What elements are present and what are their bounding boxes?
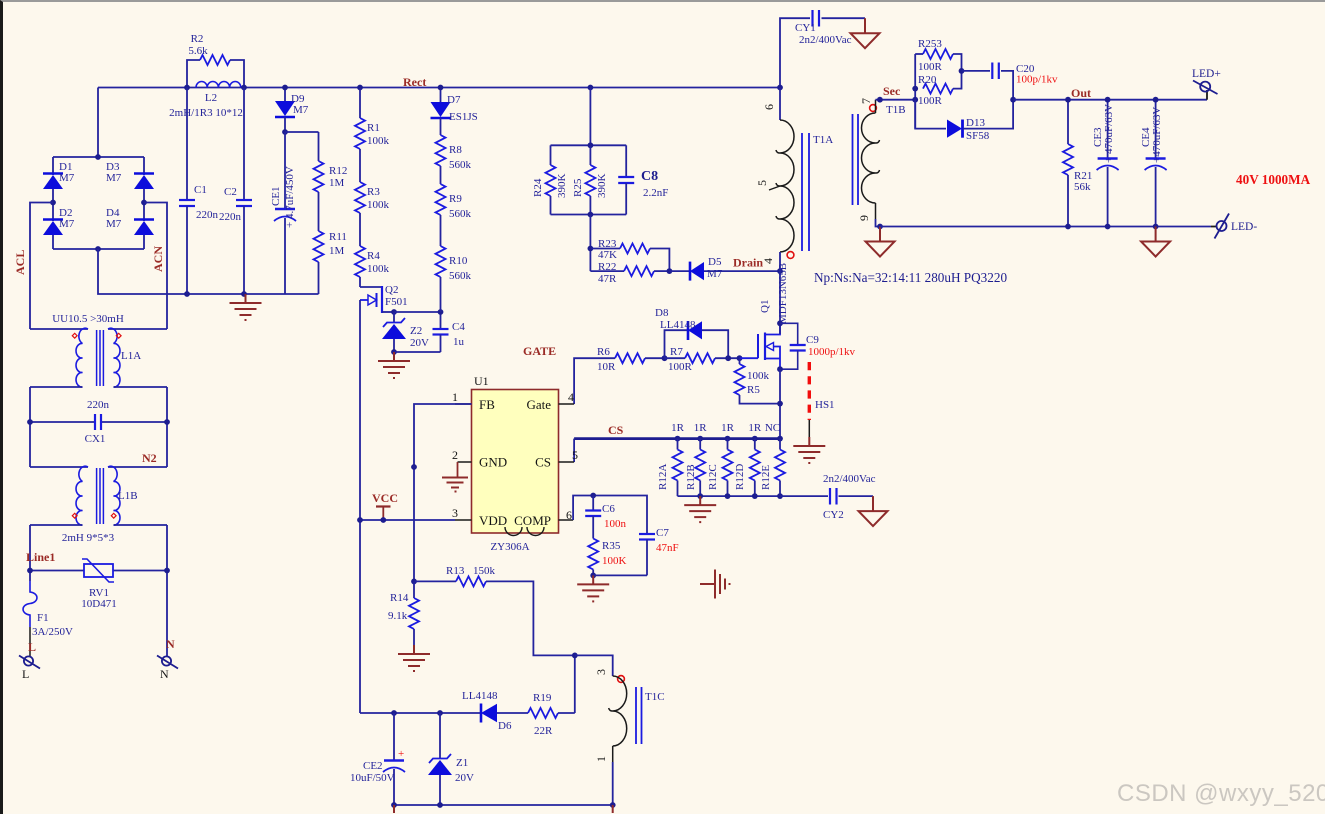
connector LED+ (1192, 68, 1221, 100)
node: pin 7 (877, 97, 883, 103)
svg-text:560k: 560k (449, 208, 472, 220)
wire: ACN from bridge to choke (144, 203, 167, 330)
ground: sense network (684, 496, 716, 522)
diode D9 (275, 88, 309, 133)
svg-text:1: 1 (452, 390, 458, 404)
earth: CY1 (851, 18, 880, 48)
svg-text:M7: M7 (707, 268, 723, 280)
wire: snubber bottom rail (551, 214, 627, 216)
svg-text:N2: N2 (142, 451, 157, 465)
svg-text:F501: F501 (385, 296, 408, 308)
svg-text:D6: D6 (498, 720, 512, 732)
node: drain / C9 (777, 320, 783, 326)
ground: COMP filter (577, 575, 609, 601)
svg-text:47nF: 47nF (656, 542, 679, 554)
node: source / C9 (777, 366, 783, 372)
resistor R19 (528, 692, 575, 737)
svg-text:R12: R12 (329, 165, 347, 177)
svg-text:6: 6 (566, 508, 572, 522)
svg-text:D5: D5 (708, 256, 722, 268)
svg-text:CE2: CE2 (363, 760, 383, 772)
svg-text:CSDN @wxyy_520: CSDN @wxyy_520 (1117, 780, 1325, 807)
node: Z1 bottom (437, 802, 443, 808)
svg-text:R7: R7 (670, 346, 683, 358)
svg-text:Q1: Q1 (759, 300, 771, 313)
wire: snubber to R23/R22 (589, 215, 591, 272)
node: CX1 right (164, 419, 170, 425)
svg-text:M7: M7 (59, 218, 75, 230)
svg-text:N: N (166, 637, 175, 651)
wire: CS sense rail (thick) (574, 437, 780, 440)
node: R35 bottom (590, 573, 596, 579)
pin 5 lead (559, 448, 579, 462)
diode D13 (915, 100, 1013, 142)
wire: sense bottom rail (678, 495, 781, 497)
svg-text:R35: R35 (602, 540, 621, 552)
wire: to Q1 gate (740, 357, 759, 359)
svg-text:Np:Ns:Na=32:14:11 280uH PQ3220: Np:Ns:Na=32:14:11 280uH PQ3220 (814, 270, 1007, 285)
power stub: aux return left (393, 805, 395, 813)
wire: bridge bottom rail (53, 248, 144, 250)
resistor R12 (314, 132, 348, 192)
svg-text:C4: C4 (452, 321, 465, 333)
node: VCC symbol tap (380, 517, 386, 523)
svg-text:4: 4 (568, 390, 574, 404)
pin 1 lead (452, 390, 472, 404)
svg-text:VCC: VCC (372, 491, 398, 505)
resistor R6 (597, 346, 665, 373)
svg-text:ES1JS: ES1JS (449, 111, 478, 123)
wire: L1B left down to Line1 (29, 525, 31, 581)
svg-text:D13: D13 (966, 117, 985, 129)
capacitor CE2 (electrolytic) (350, 713, 405, 805)
svg-text:1: 1 (594, 756, 608, 762)
svg-text:CE1: CE1 (270, 186, 282, 206)
resistor R12E (760, 439, 785, 497)
connector LED- (1211, 214, 1257, 239)
svg-text:+ 470uF/63V: + 470uF/63V (1103, 104, 1115, 163)
svg-text:GATE: GATE (523, 344, 556, 358)
svg-text:R9: R9 (449, 193, 462, 205)
pin 3 lead (452, 506, 472, 520)
svg-text:HS1: HS1 (815, 399, 835, 411)
node: CE3 top (1105, 97, 1111, 103)
svg-text:N: N (160, 667, 169, 681)
wire: Z2 bottom to C4 bottom (394, 351, 441, 353)
wire: snubber top vertical (589, 88, 591, 146)
node: snubber top (588, 142, 594, 148)
svg-text:R14: R14 (390, 592, 409, 604)
wire: bridge minus down to ground rail (98, 249, 319, 294)
svg-text:220n: 220n (219, 211, 242, 223)
wire: bridge top rail (53, 156, 144, 158)
svg-text:C7: C7 (656, 527, 669, 539)
svg-text:6: 6 (762, 104, 776, 110)
svg-text:3: 3 (452, 506, 458, 520)
node: CE4 top (1153, 97, 1159, 103)
node: bus corner at transformer (777, 85, 783, 91)
svg-text:3A/250V: 3A/250V (32, 626, 73, 638)
heatsink HS1 (809, 362, 834, 437)
svg-text:R4: R4 (367, 250, 380, 262)
wire: Q2 source to C4 (394, 311, 441, 313)
svg-text:CS: CS (535, 455, 551, 470)
svg-text:100k: 100k (747, 370, 770, 382)
svg-text:2n2/400Vac: 2n2/400Vac (799, 34, 852, 46)
svg-text:R12C: R12C (707, 464, 719, 490)
node: Z1 top (437, 710, 443, 716)
node: bus at snubber (588, 85, 594, 91)
wire: left vertical choke to CX1 to L1B (29, 387, 31, 467)
svg-text:Z1: Z1 (456, 757, 468, 769)
capacitor CX1 (30, 399, 167, 445)
node: CE4 bottom (1153, 224, 1159, 230)
node: CE3 bottom (1105, 224, 1111, 230)
capacitor C8 (618, 145, 668, 214)
svg-text:1u: 1u (453, 336, 465, 348)
capacitor C7 (639, 527, 679, 575)
node: bridge AC left (50, 200, 56, 206)
svg-text:+: + (398, 748, 404, 760)
svg-text:SF58: SF58 (966, 130, 990, 142)
svg-text:5.6k: 5.6k (188, 45, 208, 57)
svg-text:R12D: R12D (734, 464, 746, 490)
svg-text:100n: 100n (604, 518, 627, 530)
ground: R14 (398, 645, 430, 671)
pin 2 lead (452, 448, 472, 477)
node: FB wire dot (411, 464, 417, 470)
svg-text:L: L (28, 640, 36, 654)
node: R7/R5/gate (725, 355, 731, 361)
svg-text:47R: 47R (598, 273, 617, 285)
svg-text:C6: C6 (602, 503, 615, 515)
node: CE2 top (391, 710, 397, 716)
transistor Q2 (360, 284, 408, 313)
resistor R2 (187, 33, 244, 88)
power stub: aux return right (612, 805, 614, 813)
ground: floating (rotated) (700, 570, 730, 599)
svg-text:Out: Out (1071, 86, 1091, 100)
wire: FB net (414, 404, 472, 581)
node: ground rail at C2 (241, 291, 247, 297)
resistor R12A (657, 439, 683, 497)
node: aux node (572, 653, 578, 659)
svg-text:100R: 100R (918, 95, 943, 107)
resistor R25 (572, 145, 608, 214)
wire: aux rail (394, 712, 481, 714)
wire: L1B right down to N (166, 525, 168, 656)
svg-text:1M: 1M (329, 245, 345, 257)
diode D6 (462, 690, 528, 732)
wire: drain vertical (779, 271, 781, 334)
node: R13/R14/FB (411, 579, 417, 585)
node: bus at D9 (282, 85, 288, 91)
node: T1C return (610, 802, 616, 808)
node: C4 top (438, 309, 444, 315)
node: R6/R7/D8 (662, 355, 668, 361)
wire: COMP net (573, 496, 647, 535)
svg-text:4: 4 (761, 258, 775, 264)
svg-text:L1A: L1A (121, 350, 141, 362)
svg-text:NC: NC (765, 422, 780, 434)
wire: Out rail (1013, 99, 1207, 101)
svg-text:L2: L2 (205, 92, 217, 104)
resistor R12D (734, 439, 760, 497)
wire: pin7 to R20/R253 (876, 99, 916, 101)
fuse F1 (23, 581, 73, 638)
resistor R9 (436, 166, 472, 220)
svg-text:1R: 1R (748, 422, 762, 434)
node: R21 bottom (1065, 224, 1071, 230)
wire: U1 CS pin to sense rail (573, 439, 575, 462)
wire: T1C pin1 to aux return (612, 762, 614, 805)
wire: C7 bottom link (593, 574, 647, 576)
svg-text:CS: CS (608, 423, 624, 437)
resistor R1 (355, 88, 390, 150)
node: VCC rail at gate-line (357, 517, 363, 523)
svg-text:LED+: LED+ (1192, 68, 1221, 80)
node: Out (1010, 97, 1016, 103)
connector N (157, 637, 178, 681)
wire: RV1 row (30, 570, 84, 572)
inductor L2 (169, 82, 243, 120)
svg-text:ACN: ACN (151, 246, 165, 272)
capacitor C6 (585, 496, 626, 539)
diode D7 (431, 88, 478, 124)
svg-text:1R: 1R (721, 422, 735, 434)
node: Line1 right (164, 568, 170, 574)
svg-text:3: 3 (594, 669, 608, 675)
node: pin 9 (877, 224, 883, 230)
node: bridge AC right (141, 200, 147, 206)
svg-text:Rect: Rect (403, 75, 426, 89)
connector L (19, 640, 40, 681)
svg-text:R2: R2 (191, 33, 204, 45)
svg-text:VDD: VDD (479, 513, 507, 528)
svg-text:ZY306A: ZY306A (490, 541, 529, 553)
svg-text:10D471: 10D471 (81, 598, 116, 610)
capacitor C1 (179, 88, 219, 295)
svg-text:+ 4.7uF/450V: + 4.7uF/450V (284, 166, 296, 228)
node: ground rail at C1 (184, 291, 190, 297)
node: CX1 left (27, 419, 33, 425)
svg-text:UU10.5 >30mH: UU10.5 >30mH (52, 313, 124, 325)
node: bus at D7 (438, 85, 444, 91)
svg-text:Sec: Sec (883, 84, 901, 98)
svg-text:LL4148: LL4148 (462, 690, 498, 702)
resistor R3 (355, 149, 390, 213)
wire: bridge + to top bus (97, 88, 99, 158)
svg-text:R3: R3 (367, 186, 380, 198)
node: Z2 bottom (391, 349, 397, 355)
capacitor CY2 (780, 473, 876, 521)
svg-text:2n2/400Vac: 2n2/400Vac (823, 473, 876, 485)
transistor Q1 (758, 263, 789, 369)
svg-text:R12E: R12E (760, 465, 772, 490)
capacitor CE1 (electrolytic) (270, 132, 296, 294)
svg-text:2: 2 (452, 448, 458, 462)
resistor R23 (590, 238, 669, 271)
svg-text:1R: 1R (694, 422, 708, 434)
varistor RV1 (81, 559, 116, 610)
svg-text:R24: R24 (532, 178, 544, 197)
svg-text:C1: C1 (194, 184, 207, 196)
svg-text:CY1: CY1 (795, 22, 816, 34)
node: R23 tap (588, 246, 594, 252)
svg-text:R12B: R12B (685, 464, 697, 490)
svg-text:40V 1000MA: 40V 1000MA (1236, 172, 1311, 187)
svg-text:1R: 1R (671, 422, 685, 434)
svg-text:7: 7 (859, 98, 873, 104)
winding T1B (pins 7,9) (853, 98, 906, 221)
resistor R20 (918, 71, 962, 107)
svg-text:R12A: R12A (657, 464, 669, 490)
svg-text:1000p/1kv: 1000p/1kv (808, 346, 856, 358)
wire: ACL from bridge to choke (30, 203, 53, 330)
svg-text:390K: 390K (556, 174, 568, 199)
svg-text:CY2: CY2 (823, 509, 844, 521)
wire: output return rail (880, 226, 1211, 228)
common-mode choke L1B (30, 466, 167, 544)
wire: right vertical choke to CX1 to L1B (166, 387, 168, 467)
resistor R12C (707, 439, 733, 497)
op-amp U1 body (472, 374, 559, 553)
svg-text:M7: M7 (59, 172, 75, 184)
svg-text:D8: D8 (655, 307, 669, 319)
svg-text:C8: C8 (641, 169, 658, 184)
svg-text:100k: 100k (367, 199, 390, 211)
wire: source vertical to CS (779, 369, 781, 438)
node: D9 cathode / CE1 (282, 129, 288, 135)
resistor R35 (588, 539, 626, 576)
svg-text:R20: R20 (918, 74, 937, 86)
node: source / R5 (777, 401, 783, 407)
resistor R21 (1063, 100, 1092, 227)
node: bridge - (95, 246, 101, 252)
node: Line1 left (27, 568, 33, 574)
node: CE2 bottom (391, 802, 397, 808)
svg-text:R13: R13 (446, 565, 465, 577)
node: R22/R23 junction (667, 268, 673, 274)
pin 4 lead (559, 390, 575, 404)
winding T1A (pins 6,5,4) (755, 88, 833, 272)
svg-text:100p/1kv: 100p/1kv (1016, 74, 1058, 86)
capacitor CE3 (electrolytic) (1092, 100, 1119, 227)
svg-text:R5: R5 (747, 384, 760, 396)
svg-text:COMP: COMP (514, 513, 551, 528)
svg-text:M7: M7 (106, 218, 122, 230)
svg-text:10uF/50V: 10uF/50V (350, 772, 395, 784)
svg-text:56k: 56k (1074, 181, 1091, 193)
wire: to T1C top (575, 655, 613, 676)
resistor R12B (685, 439, 705, 497)
svg-text:150k: 150k (473, 565, 496, 577)
svg-text:390K: 390K (596, 174, 608, 199)
svg-text:LED-: LED- (1231, 221, 1257, 233)
svg-text:2.2nF: 2.2nF (643, 187, 668, 199)
svg-text:C2: C2 (224, 186, 237, 198)
svg-text:R11: R11 (329, 231, 347, 243)
svg-text:Q2: Q2 (385, 284, 398, 296)
svg-text:Z2: Z2 (410, 325, 422, 337)
resistor R13 (414, 565, 575, 655)
svg-text:5: 5 (572, 448, 578, 462)
resistor R8 (436, 118, 472, 171)
svg-text:560k: 560k (449, 270, 472, 282)
wire: pin9 down to output return (876, 219, 881, 227)
svg-text:Drain: Drain (733, 256, 763, 270)
node: drain at pin 4 (777, 268, 783, 274)
capacitor C9 (780, 323, 856, 369)
wire: Sec node vertical (914, 54, 916, 129)
svg-text:100K: 100K (602, 555, 627, 567)
svg-text:20V: 20V (455, 772, 474, 784)
pin 6 lead (559, 508, 574, 522)
svg-text:1M: 1M (329, 177, 345, 189)
svg-text:R19: R19 (533, 692, 552, 704)
svg-text:MDF13N65B: MDF13N65B (777, 263, 789, 324)
svg-text:GND: GND (479, 455, 507, 470)
earth: CY2 (859, 496, 888, 526)
svg-text:L1B: L1B (118, 490, 138, 502)
svg-text:+470uF/63V: +470uF/63V (1151, 107, 1163, 163)
node: bus at C1 (184, 85, 190, 91)
svg-text:2mH/1R3 10*12: 2mH/1R3 10*12 (169, 107, 243, 119)
node: COMP / C6 (590, 493, 596, 499)
ground: primary ground (230, 294, 262, 320)
capacitor CY1 (780, 10, 865, 88)
svg-text:5: 5 (755, 180, 769, 186)
capacitor C4 (433, 312, 466, 352)
svg-text:220n: 220n (196, 209, 219, 221)
resistor R5 (735, 358, 780, 403)
svg-text:U1: U1 (474, 374, 489, 388)
svg-text:D7: D7 (447, 94, 461, 106)
capacitor C20 (962, 63, 1059, 100)
svg-text:20V: 20V (410, 337, 429, 349)
wire: U1 gate pin to R6 (574, 358, 615, 404)
svg-text:100k: 100k (367, 135, 390, 147)
wire: Q2 gate vertical down to VCC rail and bottom (359, 300, 361, 713)
node: snubber bottom (588, 212, 594, 218)
common-mode choke L1A (30, 313, 167, 387)
svg-text:100R: 100R (668, 361, 693, 373)
svg-text:47K: 47K (598, 249, 617, 261)
svg-text:M7: M7 (106, 172, 122, 184)
svg-text:T1C: T1C (645, 691, 665, 703)
resistor R7 (665, 346, 740, 373)
svg-text:220n: 220n (87, 399, 110, 411)
ground: Z2/C4 ground (378, 352, 410, 378)
svg-text:R25: R25 (572, 178, 584, 197)
diode D1 (43, 157, 75, 203)
node: Sec/R20 (912, 86, 918, 92)
node: bus at R1 (357, 85, 363, 91)
svg-text:LL4148: LL4148 (660, 319, 696, 331)
capacitor C2 (219, 88, 252, 295)
diode D5 (669, 256, 780, 281)
wire: R19 up to T1C pin3 (574, 655, 576, 713)
node: bus at C2 (241, 85, 247, 91)
resistor R22 (590, 249, 669, 285)
diode D8 (655, 307, 728, 358)
svg-text:100k: 100k (367, 263, 390, 275)
winding T1C (pins 3,1) (594, 669, 665, 762)
svg-text:Line1: Line1 (26, 550, 55, 564)
wire: aux return rail (394, 804, 613, 806)
node: CS rail dots (675, 436, 681, 442)
svg-text:R22: R22 (598, 261, 616, 273)
